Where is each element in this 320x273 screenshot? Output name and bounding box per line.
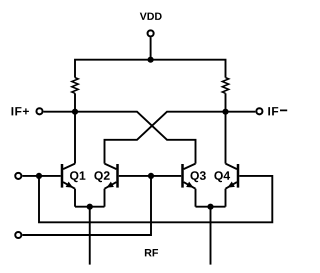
transistor Q2 label	[94, 171, 109, 182]
label VDD	[140, 13, 162, 20]
wire Q2 emitter	[104, 189, 106, 207]
node VDD rail junction	[148, 57, 154, 63]
label IF-	[268, 107, 287, 115]
transistor Q4	[226, 164, 239, 189]
node Q1 base junction	[36, 173, 42, 179]
node IF- junction	[222, 109, 228, 115]
wire Q1-Q2 emitter tie	[75, 206, 105, 208]
wire IF+ rail cross to Q3 collector	[44, 112, 196, 164]
transistor Q3	[183, 164, 196, 189]
wire LO lower to Q2-Q3 bases	[22, 176, 151, 235]
wire LO upper to Q1 base	[22, 175, 60, 177]
wire Q4 emitter	[225, 189, 227, 207]
wire R2 bottom lead	[225, 93, 227, 111]
terminal LO lower left	[15, 232, 21, 238]
wire Q4 collector	[225, 112, 227, 164]
wire RF left feed	[89, 207, 91, 265]
wire VDD rail	[75, 60, 226, 78]
resistor R1	[72, 78, 78, 94]
terminal VDD	[148, 30, 154, 36]
transistor Q1 label	[70, 171, 85, 182]
wire cross-connect Q1 base to Q4 base	[39, 176, 272, 222]
wire Q2-Q3 base tie	[119, 175, 182, 177]
node IF+ junction	[72, 109, 78, 115]
node right emitter junction	[207, 204, 213, 210]
wire Q3-Q4 emitter tie	[196, 206, 226, 208]
resistor R2	[222, 78, 228, 94]
wire Q3 emitter	[195, 189, 197, 207]
wire VDD stub	[150, 37, 152, 59]
wire RF right feed	[210, 207, 212, 265]
terminal LO upper left	[15, 173, 21, 179]
wire Q1 collector	[74, 112, 76, 164]
label RF	[145, 249, 158, 256]
transistor Q4 label	[214, 171, 230, 182]
wire Q1 emitter	[74, 189, 76, 207]
node Q2-Q3 base junction	[148, 173, 154, 179]
transistor Q3 label	[190, 171, 205, 182]
wire IF- rail cross to Q2 collector	[105, 112, 256, 164]
node left emitter junction	[87, 204, 93, 210]
wire R1 bottom lead	[74, 93, 76, 111]
transistor Q1	[62, 164, 75, 189]
terminal IF+	[36, 108, 42, 114]
transistor Q2	[105, 164, 118, 189]
terminal IF-	[256, 108, 262, 114]
label IF+	[12, 107, 29, 115]
